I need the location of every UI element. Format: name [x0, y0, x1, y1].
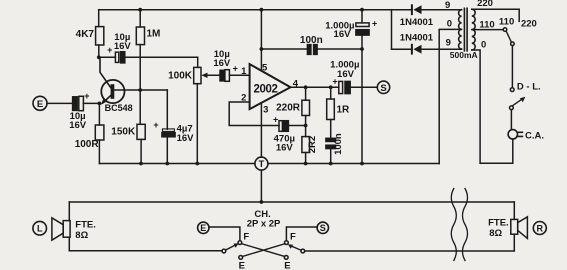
switch voltage selector blade	[506, 31, 511, 42]
svg-text:100R: 100R	[75, 139, 100, 150]
svg-text:0: 0	[447, 19, 452, 30]
connector S output	[377, 81, 389, 94]
connector R	[533, 222, 546, 235]
capacitor 470µ feedback	[273, 114, 306, 153]
node 100K ground	[195, 162, 199, 166]
svg-text:R: R	[537, 223, 544, 233]
wire selector to D-L switch	[511, 46, 513, 88]
capacitor 4µ7	[153, 90, 194, 164]
capacitor 10µ collector coupling	[99, 32, 198, 63]
wire plug to primary 0 tap	[472, 50, 513, 163]
capacitor 10µ to pin 1	[213, 49, 249, 81]
switch D-L	[510, 82, 541, 110]
terminal F left	[238, 241, 242, 245]
node feedback junction	[304, 124, 308, 128]
svg-text:5: 5	[262, 62, 268, 73]
wire switch to plug	[510, 110, 512, 130]
svg-text:8Ω: 8Ω	[489, 228, 502, 239]
transistor Q1 BC548	[100, 57, 133, 113]
terminal 110	[503, 28, 507, 32]
svg-text:16V: 16V	[177, 133, 195, 144]
svg-text:100n: 100n	[300, 35, 323, 46]
node output 220R	[304, 85, 308, 89]
svg-text:0: 0	[481, 40, 486, 51]
svg-text:9: 9	[445, 0, 450, 11]
node 150K ground	[139, 162, 143, 166]
connector T	[255, 157, 268, 170]
wire primary 220 tap	[472, 9, 519, 21]
svg-text:16V: 16V	[334, 29, 352, 40]
svg-text:2R2: 2R2	[307, 136, 318, 153]
svg-text:110: 110	[499, 16, 514, 27]
transformer core	[464, 8, 467, 51]
svg-text:1: 1	[241, 66, 247, 77]
svg-text:8Ω: 8Ω	[75, 230, 88, 241]
resistor 4K7	[76, 27, 104, 45]
svg-text:F: F	[243, 231, 249, 242]
svg-text:+: +	[107, 45, 112, 55]
wire S to F right	[286, 227, 317, 241]
resistor 150K	[111, 90, 145, 164]
resistor 2R2	[302, 126, 318, 164]
svg-text:+: +	[153, 120, 158, 130]
resistor 220R	[276, 87, 309, 125]
diode D2 1N4001	[392, 33, 462, 54]
connector S switch	[317, 222, 328, 233]
svg-text:1M: 1M	[147, 29, 161, 40]
wire E to F left	[209, 227, 240, 241]
svg-text:L: L	[37, 224, 43, 234]
svg-text:220R: 220R	[276, 102, 301, 113]
wire ground rail right	[268, 163, 439, 165]
capacitor 100n supply	[300, 35, 323, 55]
svg-text:220: 220	[521, 18, 537, 29]
speaker right FTE 8 ohm	[488, 217, 527, 239]
svg-text:16V: 16V	[114, 41, 132, 52]
transformer primary winding	[472, 9, 475, 50]
svg-text:1N4001: 1N4001	[400, 17, 434, 28]
svg-text:100n: 100n	[333, 133, 344, 155]
svg-text:9: 9	[446, 37, 451, 48]
op-amp U1 2002	[250, 64, 291, 109]
svg-text:220: 220	[477, 0, 493, 9]
plug C.A.	[508, 130, 544, 142]
svg-text:16V: 16V	[276, 143, 294, 154]
potentiometer 100K	[168, 57, 220, 163]
svg-text:E: E	[284, 260, 290, 270]
capacitor 10µ input	[69, 91, 89, 131]
svg-text:+: +	[372, 18, 377, 28]
wire output pin 4	[291, 86, 339, 88]
diode D1 1N4001	[392, 5, 462, 28]
wire left speaker leads	[68, 202, 70, 251]
wire 100n supply line	[261, 48, 362, 50]
wire right speaker leads	[513, 202, 515, 251]
terminal selector common	[511, 42, 515, 46]
terminal E bottom right	[284, 256, 290, 270]
node top rail pin5	[260, 8, 264, 12]
svg-text:C.A.: C.A.	[525, 131, 544, 142]
wire 100R to ground rail	[98, 140, 100, 164]
capacitor 1.000µ filter	[325, 10, 377, 49]
svg-text:E: E	[37, 99, 43, 110]
svg-text:FTE.: FTE.	[75, 219, 96, 230]
resistor 1M	[136, 10, 160, 90]
node pin5 100n junction	[260, 47, 264, 51]
node filter ground	[360, 162, 364, 166]
wire pin 3 to ground	[260, 103, 262, 157]
connector E input	[33, 96, 47, 110]
svg-text:T: T	[258, 159, 264, 170]
wire filter cap to ground	[361, 49, 363, 164]
svg-text:1R: 1R	[337, 104, 351, 115]
wire emitter to 100R	[98, 103, 100, 125]
svg-text:100K: 100K	[168, 71, 193, 82]
connector E switch	[198, 222, 209, 233]
node 100n ground	[329, 162, 333, 166]
node 2R2 ground	[304, 162, 308, 166]
svg-text:4K7: 4K7	[76, 29, 95, 40]
wire base lead	[114, 89, 168, 91]
node top rail 1M	[138, 8, 142, 12]
svg-text:+: +	[233, 63, 238, 73]
capacitor 1.000µ output	[330, 60, 377, 94]
svg-text:F: F	[290, 231, 296, 242]
terminal switch pole left	[222, 249, 226, 253]
terminal switch pole right	[301, 249, 305, 253]
svg-text:1N4001: 1N4001	[400, 33, 434, 44]
wire 4K7 bottom lead	[98, 45, 100, 57]
wire rectifier bus	[391, 10, 393, 50]
cable break squiggle right	[463, 189, 468, 261]
svg-text:16V: 16V	[213, 58, 231, 69]
svg-text:+: +	[273, 114, 278, 124]
wire cross F-right to E-left	[242, 244, 285, 257]
wire speaker top bus	[69, 201, 514, 203]
resistor 1R	[327, 87, 350, 119]
svg-text:BC548: BC548	[105, 103, 133, 113]
wire primary 110 tap	[472, 29, 503, 31]
svg-text:S: S	[320, 223, 326, 233]
node top rail filter cap	[360, 8, 364, 12]
node collector junction	[97, 55, 101, 59]
speaker left FTE 8 ohm	[52, 218, 96, 241]
cable break squiggle left	[451, 189, 456, 261]
svg-text:110: 110	[479, 19, 494, 30]
connector L	[33, 221, 47, 235]
terminal E bottom left	[239, 256, 245, 270]
transformer secondary winding	[459, 10, 462, 49]
svg-text:2P x 2P: 2P x 2P	[247, 219, 281, 230]
svg-text:D - L.: D - L.	[517, 82, 541, 93]
svg-text:150K: 150K	[111, 127, 136, 138]
switch blade right	[288, 244, 301, 250]
svg-text:16V: 16V	[69, 120, 87, 131]
node filter 100n junction	[360, 47, 364, 51]
wire cross F-left to E-right	[242, 244, 285, 257]
wire speaker bottom bus left	[69, 250, 222, 252]
wire ground rail left	[99, 163, 255, 165]
svg-text:16V: 16V	[337, 69, 355, 80]
wire speaker bottom bus right	[305, 250, 515, 252]
wire 4K7 top lead	[98, 10, 100, 27]
node emitter junction	[98, 102, 102, 106]
switch blade left	[226, 243, 239, 250]
node base junction	[138, 88, 142, 92]
wire input cap to emitter node	[83, 102, 99, 104]
node 4µ7 ground	[165, 162, 169, 166]
svg-text:+: +	[84, 91, 89, 101]
wire pin 5 supply	[260, 10, 262, 71]
wire pin 2 feedback	[229, 102, 279, 126]
svg-text:3: 3	[263, 105, 268, 116]
node speaker bus junction	[260, 200, 264, 204]
svg-text:E: E	[200, 223, 206, 233]
wire T to speaker bus	[260, 170, 262, 202]
svg-text:S: S	[380, 83, 386, 94]
wire +V top rail	[99, 9, 392, 11]
terminal F right	[285, 241, 289, 245]
wire secondary center tap	[439, 29, 461, 163]
wire E to input cap	[47, 102, 73, 104]
node output 1R	[329, 85, 333, 89]
svg-text:2002: 2002	[254, 83, 278, 95]
resistor 100R	[75, 125, 104, 150]
capacitor 100n output	[326, 120, 344, 164]
svg-text:E: E	[239, 260, 245, 270]
svg-text:500mA: 500mA	[450, 50, 478, 60]
